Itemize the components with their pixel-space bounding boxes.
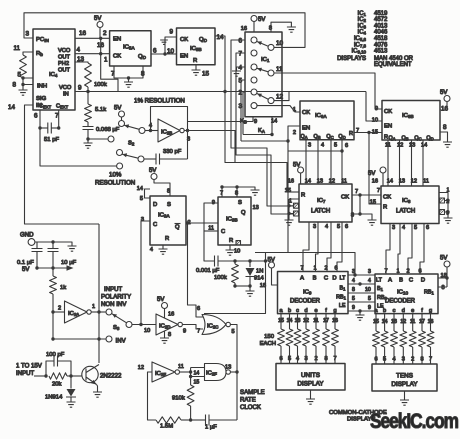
svg-text:5V: 5V bbox=[258, 17, 265, 23]
svg-text:1: 1 bbox=[104, 57, 108, 64]
svg-text:IC7,8: IC7,8 bbox=[354, 42, 367, 48]
svg-text:12: 12 bbox=[397, 143, 403, 149]
svg-text:CK: CK bbox=[302, 110, 310, 116]
svg-text:INPUT: INPUT bbox=[16, 370, 35, 377]
svg-text:4513: 4513 bbox=[374, 49, 388, 55]
svg-text:3: 3 bbox=[392, 225, 395, 231]
svg-text:R: R bbox=[349, 131, 353, 137]
svg-text:5: 5 bbox=[337, 224, 340, 230]
ground (IC8 right) bbox=[444, 218, 453, 223]
svg-text:3: 3 bbox=[352, 269, 355, 275]
svg-text:12: 12 bbox=[411, 179, 417, 185]
svg-text:QD: QD bbox=[426, 136, 433, 142]
svg-text:8: 8 bbox=[351, 213, 354, 219]
switch commons IC1 right column bbox=[268, 44, 274, 50]
svg-text:LE: LE bbox=[339, 303, 346, 309]
svg-text:RB1: RB1 bbox=[424, 290, 435, 296]
svg-text:3: 3 bbox=[368, 269, 371, 275]
node latch pin8 junction bbox=[358, 212, 361, 215]
wire IC3B pin9 to RC node bbox=[204, 203, 218, 261]
capacitor 0.1uF bbox=[36, 242, 38, 249]
svg-text:CEXT: CEXT bbox=[39, 104, 52, 110]
svg-text:INH: INH bbox=[37, 84, 47, 90]
wire IC1 pin6 to K bundle bbox=[231, 40, 293, 206]
svg-text:IC2B: IC2B bbox=[161, 130, 172, 136]
node IC8 right pins bbox=[446, 199, 449, 202]
node IC2F input node bbox=[189, 370, 192, 373]
switch S2 arm lower bbox=[122, 154, 138, 158]
svg-text:IC2E: IC2E bbox=[155, 371, 166, 377]
wire IC7 CK to IC8 CK bbox=[352, 194, 381, 196]
svg-text:4: 4 bbox=[402, 225, 405, 231]
svg-text:3: 3 bbox=[313, 224, 316, 230]
svg-text:D: D bbox=[332, 276, 336, 282]
svg-text:IN: IN bbox=[63, 92, 69, 98]
counter IC5A box bbox=[110, 31, 151, 66]
switch arm IC1-a bbox=[257, 42, 268, 47]
svg-text:D: D bbox=[153, 202, 157, 208]
svg-text:SeekIC.com: SeekIC.com bbox=[370, 410, 458, 433]
svg-text:IC9: IC9 bbox=[303, 290, 312, 296]
svg-text:R: R bbox=[384, 135, 388, 141]
switch S2 contact middle bbox=[108, 136, 114, 142]
svg-text:15: 15 bbox=[202, 71, 210, 78]
svg-text:14: 14 bbox=[194, 371, 200, 377]
wire SIG IN run to input stage bbox=[25, 105, 100, 224]
svg-text:IC4: IC4 bbox=[358, 30, 367, 36]
wire IC5A pins 7,8 to ground bbox=[114, 66, 143, 78]
wire IC9-IC10 bus bbox=[348, 275, 375, 311]
decoder IC9 box bbox=[278, 272, 349, 314]
node rail junctions bbox=[35, 266, 38, 269]
svg-text:QB: QB bbox=[314, 134, 321, 140]
node Ra/INH junction bbox=[21, 76, 24, 79]
svg-text:1 TO 15V: 1 TO 15V bbox=[16, 363, 43, 370]
svg-text:S: S bbox=[167, 202, 171, 208]
svg-text:IC9,10: IC9,10 bbox=[351, 49, 366, 55]
svg-text:QD: QD bbox=[138, 54, 147, 60]
switch S3 contact INV bbox=[106, 336, 112, 342]
svg-text:13: 13 bbox=[399, 179, 405, 185]
switch S3 common bbox=[126, 322, 132, 328]
ground (input diode) bbox=[67, 402, 76, 407]
switch contacts IC1 left column bbox=[251, 37, 257, 43]
node EN line junctions bbox=[286, 139, 289, 142]
svg-text:IC2C: IC2C bbox=[207, 324, 218, 330]
svg-text:B: B bbox=[313, 276, 317, 282]
wire IC2A out to NONINV contact bbox=[91, 311, 106, 313]
resistor 100k (PH2 OUT to VCO IN) bbox=[75, 62, 88, 63]
switch block IC1 box bbox=[245, 32, 282, 117]
svg-text:IC2F: IC2F bbox=[206, 371, 217, 377]
svg-text:MAN 4540 OR: MAN 4540 OR bbox=[374, 56, 414, 62]
node RC tap bbox=[264, 259, 267, 262]
svg-text:5.1k: 5.1k bbox=[95, 107, 106, 113]
node IC2B input junction bbox=[149, 129, 152, 132]
wire IC6A QD to IC7 bbox=[341, 140, 343, 184]
svg-text:8: 8 bbox=[352, 287, 355, 293]
svg-text:5: 5 bbox=[414, 225, 417, 231]
svg-text:QB: QB bbox=[402, 136, 409, 142]
svg-text:IC6A: IC6A bbox=[315, 113, 327, 119]
svg-text:EN: EN bbox=[384, 124, 392, 130]
svg-text:1: 1 bbox=[92, 304, 95, 310]
wire IC6A QA to IC7 bbox=[305, 140, 307, 184]
wire IC5A QD to IC5B EN bbox=[151, 53, 177, 55]
ground (0.068uF) bbox=[87, 139, 89, 143]
switch arm IC1-c bbox=[257, 94, 268, 100]
wire IC8 out D to IC10 bbox=[420, 224, 424, 275]
svg-text:9: 9 bbox=[254, 119, 257, 125]
svg-text:CK: CK bbox=[341, 195, 349, 201]
wire IC1 pin4 to ground bbox=[237, 67, 246, 71]
svg-text:INV: INV bbox=[116, 338, 127, 345]
svg-text:IC1: IC1 bbox=[358, 11, 367, 17]
svg-text:11: 11 bbox=[341, 179, 347, 185]
resistor 5.1k bbox=[87, 92, 89, 105]
svg-text:5: 5 bbox=[334, 143, 337, 149]
counter IC6B box bbox=[382, 101, 440, 141]
svg-text:2: 2 bbox=[406, 269, 409, 275]
gate IC2F (NAND) bbox=[205, 364, 227, 381]
svg-text:UNITS: UNITS bbox=[301, 372, 320, 379]
wire CEXT pin 6 leg bbox=[39, 110, 41, 128]
node QD tap bbox=[340, 149, 343, 152]
wire base link bbox=[67, 375, 82, 377]
ground (LE line) bbox=[359, 311, 361, 315]
counter IC6A box bbox=[300, 101, 354, 140]
svg-text:100 pF: 100 pF bbox=[46, 352, 65, 358]
svg-text:4519: 4519 bbox=[374, 11, 388, 17]
svg-text:1N: 1N bbox=[256, 269, 263, 275]
wire IC6A R to IC6B R bbox=[354, 132, 382, 134]
svg-text:Rb: Rb bbox=[36, 51, 43, 57]
svg-text:TENS: TENS bbox=[396, 373, 413, 380]
svg-text:10: 10 bbox=[144, 328, 150, 334]
terminal GND bbox=[28, 239, 35, 246]
wire K_B net (IC1 pin 9) bbox=[188, 117, 254, 122]
wire IC2D out to IC2C bbox=[182, 325, 203, 330]
wire IC7 out B to IC9 bbox=[316, 222, 319, 272]
pin squares IC7 bbox=[294, 203, 299, 208]
svg-text:2: 2 bbox=[324, 266, 327, 272]
svg-text:EN: EN bbox=[302, 126, 310, 132]
resistor 1k bbox=[52, 268, 54, 276]
svg-text:16: 16 bbox=[288, 179, 294, 185]
wire IC2F output bbox=[230, 371, 237, 373]
svg-text:POLARITY: POLARITY bbox=[101, 294, 131, 301]
latch IC7 box bbox=[299, 184, 352, 222]
wire IC1 pin11 to IC6B CK bbox=[274, 73, 382, 109]
flip-flop IC3B box bbox=[218, 197, 251, 245]
switch S2 arm upper bbox=[124, 125, 139, 129]
svg-text:3: 3 bbox=[308, 143, 311, 149]
ground (IC5B CK area) bbox=[160, 40, 168, 44]
display TENS box bbox=[372, 364, 437, 391]
svg-text:16: 16 bbox=[79, 30, 87, 37]
wire IC1 pin7 to K bundle bbox=[236, 53, 293, 214]
wire IC1 pin2 down bbox=[243, 92, 245, 135]
wire INV line bbox=[53, 312, 106, 339]
wire IC6A QB to IC7 bbox=[317, 140, 319, 184]
node collector junction a bbox=[97, 310, 100, 313]
node Q junction bbox=[186, 221, 189, 224]
wire EN/KB line bbox=[241, 141, 355, 275]
svg-text:IC7: IC7 bbox=[317, 198, 326, 204]
wire IC3B pin11 stub bbox=[204, 230, 218, 232]
svg-text:15: 15 bbox=[370, 200, 376, 206]
capacitor 0.001uF bbox=[215, 256, 219, 267]
svg-text:4: 4 bbox=[150, 247, 153, 253]
svg-text:Q: Q bbox=[241, 210, 246, 216]
svg-text:INPUT: INPUT bbox=[104, 286, 123, 293]
svg-text:7: 7 bbox=[377, 188, 380, 194]
node IC2A input bbox=[51, 310, 54, 313]
wire RC node to diode bbox=[235, 260, 266, 262]
svg-text:13: 13 bbox=[253, 205, 259, 211]
svg-text:8: 8 bbox=[442, 285, 445, 291]
svg-text:NON INV: NON INV bbox=[101, 301, 127, 308]
wire EN run to IC6B bbox=[366, 92, 382, 122]
svg-text:5V: 5V bbox=[157, 297, 164, 303]
svg-text:B: B bbox=[399, 278, 403, 284]
switch S3 arm bbox=[112, 314, 127, 323]
node IC2B output junction bbox=[186, 129, 189, 132]
resistor 100k (RC) bbox=[234, 261, 236, 264]
switch S2 contact mid2 bbox=[117, 150, 123, 156]
svg-text:VCO: VCO bbox=[58, 48, 71, 54]
flip-flop IC3A box bbox=[150, 196, 186, 245]
wire IC7 out A to IC9 bbox=[303, 222, 309, 272]
svg-text:11: 11 bbox=[13, 45, 20, 52]
node bus junctions bbox=[358, 309, 361, 312]
svg-text:EQUIVALENT: EQUIVALENT bbox=[374, 62, 412, 68]
capacitor 51pF bbox=[40, 127, 48, 129]
wire GND rail bbox=[35, 242, 72, 246]
latch IC8 box bbox=[381, 186, 439, 224]
svg-text:4076: 4076 bbox=[374, 42, 388, 48]
svg-text:51 pF: 51 pF bbox=[44, 137, 59, 143]
wire IC3A pins 14,5 tie bbox=[145, 189, 151, 198]
wire VCO OUT pin4 to IC5A CK bbox=[75, 53, 110, 55]
svg-text:5: 5 bbox=[232, 329, 235, 335]
capacitor 1uF bbox=[191, 419, 206, 421]
svg-text:4013: 4013 bbox=[374, 23, 388, 29]
svg-text:8: 8 bbox=[269, 26, 272, 32]
ground (IC3B S/R) bbox=[251, 190, 260, 195]
svg-text:8: 8 bbox=[168, 332, 171, 338]
svg-text:9: 9 bbox=[368, 305, 371, 311]
svg-text:7: 7 bbox=[356, 128, 359, 134]
svg-text:9: 9 bbox=[78, 85, 82, 92]
wire S3 common to IC2D bbox=[132, 324, 156, 326]
svg-text:d: d bbox=[304, 308, 307, 314]
wire to S2 middle contact bbox=[88, 138, 108, 140]
svg-text:11: 11 bbox=[178, 364, 184, 370]
svg-text:R: R bbox=[165, 236, 169, 242]
wire S2 common to IC2B input bbox=[145, 130, 158, 132]
svg-text:DECODER: DECODER bbox=[290, 299, 321, 305]
svg-text:100k: 100k bbox=[94, 82, 107, 88]
inverter IC2D bbox=[156, 314, 178, 335]
svg-text:9: 9 bbox=[169, 29, 173, 36]
ground (latch mid) bbox=[368, 220, 377, 225]
svg-text:b: b bbox=[288, 308, 291, 314]
svg-text:1: 1 bbox=[293, 107, 296, 113]
svg-text:IC3: IC3 bbox=[358, 23, 367, 29]
node VCO IN junctions bbox=[86, 90, 89, 93]
node RC bottom bbox=[233, 284, 236, 287]
svg-text:910k: 910k bbox=[172, 396, 185, 402]
capacitor 330pF bbox=[144, 158, 156, 160]
svg-text:C: C bbox=[153, 222, 157, 228]
svg-text:S3: S3 bbox=[113, 325, 120, 331]
wire IC2E out bbox=[180, 371, 191, 373]
svg-text:15: 15 bbox=[372, 130, 378, 136]
wire IC2E input loop bbox=[148, 372, 157, 420]
svg-text:QA: QA bbox=[389, 136, 396, 142]
wire diode node to gate input bbox=[204, 253, 266, 314]
wire IC5B CK tie bbox=[165, 37, 177, 54]
svg-text:R: R bbox=[301, 193, 305, 199]
svg-text:0.1 µF: 0.1 µF bbox=[17, 260, 34, 266]
svg-text:1.5M: 1.5M bbox=[160, 424, 173, 430]
svg-text:8: 8 bbox=[443, 124, 447, 131]
wire IC3A C input from S3 node bbox=[141, 221, 150, 325]
diode 1N914 (input) bbox=[66, 376, 76, 397]
svg-text:CK: CK bbox=[180, 37, 188, 43]
resistor 1.5M bbox=[156, 417, 181, 423]
wire 5V supply rail bbox=[37, 267, 67, 269]
svg-text:RESOLUTION: RESOLUTION bbox=[95, 180, 135, 187]
svg-text:8: 8 bbox=[12, 82, 16, 89]
svg-text:100k: 100k bbox=[214, 275, 227, 281]
ground (IC5A) bbox=[128, 78, 130, 82]
svg-text:18: 18 bbox=[260, 283, 266, 289]
svg-text:IC5B: IC5B bbox=[190, 46, 202, 52]
svg-text:10: 10 bbox=[234, 249, 240, 255]
svg-text:16: 16 bbox=[168, 312, 174, 318]
svg-text:6: 6 bbox=[345, 224, 348, 230]
wire IC4 pin16 to IC5A EN bbox=[75, 37, 110, 39]
svg-text:12: 12 bbox=[329, 179, 335, 185]
switch S2 common upper bbox=[139, 128, 145, 134]
svg-text:QC: QC bbox=[326, 134, 333, 140]
svg-text:14: 14 bbox=[137, 186, 143, 192]
wire IC8 out A to IC10 bbox=[386, 224, 390, 275]
wire VCO OUT branch down-right bbox=[101, 54, 118, 92]
svg-text:SAMPLE: SAMPLE bbox=[240, 389, 265, 396]
svg-text:PCIN: PCIN bbox=[36, 37, 49, 43]
ground (units display) bbox=[310, 390, 312, 399]
svg-text:LATCH: LATCH bbox=[396, 209, 415, 215]
node IC10 18 bbox=[445, 276, 448, 279]
svg-text:CLOCK: CLOCK bbox=[240, 404, 261, 411]
ground (IC5B R pin 15) bbox=[195, 65, 197, 70]
switch arm IC1-b bbox=[257, 68, 268, 72]
svg-text:RB0: RB0 bbox=[377, 295, 388, 301]
node IC5A gnd junction bbox=[127, 76, 130, 79]
svg-text:B1: B1 bbox=[340, 286, 347, 292]
wire IC2B output bbox=[184, 131, 235, 163]
node IC3B top pins bbox=[220, 185, 223, 188]
svg-text:CK: CK bbox=[383, 195, 391, 201]
svg-text:10: 10 bbox=[365, 287, 371, 293]
svg-text:1: 1 bbox=[396, 269, 399, 275]
capacitor 0.068uF bbox=[83, 127, 94, 130]
svg-text:R: R bbox=[193, 58, 197, 64]
svg-text:d: d bbox=[402, 308, 405, 314]
wire IC7 out D to IC9 bbox=[337, 222, 342, 272]
svg-text:OUT: OUT bbox=[58, 55, 71, 61]
capacitor 100pF bbox=[46, 361, 54, 376]
svg-text:3: 3 bbox=[187, 137, 190, 143]
svg-text:9: 9 bbox=[183, 329, 186, 335]
node QD/EN junction bbox=[163, 52, 166, 55]
wire IC1 pin 8 to ground bbox=[271, 22, 291, 32]
wire IC2B feedback loop bbox=[151, 107, 188, 160]
inverter IC2E bbox=[152, 362, 175, 382]
svg-text:IC2A: IC2A bbox=[68, 311, 79, 317]
svg-text:QC: QC bbox=[414, 136, 421, 142]
svg-text:10: 10 bbox=[276, 40, 284, 47]
pin squares IC8 bbox=[440, 198, 445, 203]
svg-text:CK: CK bbox=[113, 54, 121, 60]
wire collector net bbox=[98, 224, 100, 363]
wire input lead bbox=[34, 375, 46, 377]
resistor 910k bbox=[190, 377, 192, 386]
svg-text:6: 6 bbox=[418, 269, 421, 275]
svg-text:VCO: VCO bbox=[59, 85, 72, 91]
svg-text:S: S bbox=[238, 200, 242, 206]
wire IC6A QC to IC7 bbox=[330, 140, 332, 184]
wire R net down to IC8 bbox=[369, 133, 381, 205]
wire IC1 pin12 to IC6B EN bbox=[274, 92, 289, 101]
ground (IC1 pin 8) bbox=[287, 27, 296, 32]
svg-text:4: 4 bbox=[368, 278, 371, 284]
svg-text:6: 6 bbox=[334, 266, 337, 272]
svg-text:R: R bbox=[383, 205, 387, 211]
node INV junctions bbox=[97, 337, 100, 340]
wire pin6 to S2 bottom contact bbox=[40, 128, 117, 166]
svg-text:9: 9 bbox=[375, 106, 378, 112]
svg-text:14: 14 bbox=[421, 143, 427, 149]
svg-text:5V: 5V bbox=[368, 171, 375, 177]
svg-text:DECODER: DECODER bbox=[385, 299, 416, 305]
svg-text:6: 6 bbox=[197, 306, 200, 312]
wire 1k to IC2A input bbox=[53, 311, 65, 313]
svg-text:CK: CK bbox=[384, 109, 392, 115]
svg-text:c: c bbox=[296, 308, 299, 314]
svg-text:IC3B: IC3B bbox=[226, 217, 238, 223]
svg-text:QD: QD bbox=[338, 134, 345, 140]
switch S2 common lower bbox=[138, 156, 144, 162]
wire IC3A Q to IC3B bbox=[186, 222, 218, 224]
svg-text:10: 10 bbox=[167, 48, 175, 55]
wire IC6B QD to IC8 bbox=[422, 140, 424, 186]
svg-text:16: 16 bbox=[241, 26, 247, 32]
svg-text:16: 16 bbox=[372, 179, 378, 185]
svg-text:5V: 5V bbox=[114, 106, 121, 112]
svg-text:7: 7 bbox=[300, 266, 303, 272]
resistor 20k bbox=[49, 373, 67, 379]
svg-text:LT: LT bbox=[340, 276, 347, 282]
node latch CK junction bbox=[358, 193, 361, 196]
svg-text:4: 4 bbox=[325, 224, 328, 230]
wire IC3B pins 7,8 to ground bbox=[222, 187, 255, 197]
ground (IC3A R pin 4) bbox=[162, 245, 164, 249]
svg-text:PH2: PH2 bbox=[58, 61, 69, 67]
